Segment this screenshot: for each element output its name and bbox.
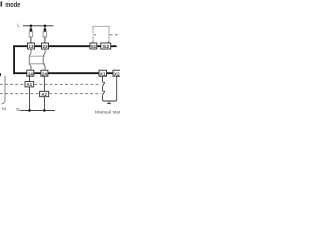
terminal box A2 (40, 91, 49, 97)
linkage dash through device box (93, 34, 96, 36)
contact K1 linkage col1 (13-14) (29, 49, 31, 70)
contact terminal nub 2 (103, 90, 105, 92)
svg-text:13: 13 (28, 44, 34, 49)
svg-text:M1: M1 (2, 107, 7, 111)
terminal box S2 (101, 43, 111, 49)
wire contact2 down and across (103, 78, 117, 101)
wire between contacts (102, 86, 104, 91)
contact K1 linkage col2 (23-24) (43, 49, 45, 70)
wire thick contact row2 (13, 72, 113, 74)
manual switch contact blade 1 (103, 82, 105, 86)
terminal box X2 (113, 70, 121, 76)
terminal box 14 (27, 70, 34, 76)
wire A2 to N (43, 97, 45, 111)
tick device to S2 (108, 41, 110, 43)
svg-text:A2: A2 (41, 92, 47, 97)
tick device to S1 (92, 41, 94, 43)
svg-text:X1: X1 (100, 71, 106, 76)
mechanical linkage dashed row upper (0, 83, 101, 85)
junction dot on L rail col2 (44, 25, 47, 28)
manual switch contact blade 2 (103, 91, 105, 95)
wire X2 down (116, 76, 118, 78)
svg-text:Manual start: Manual start (95, 110, 120, 115)
svg-text:S1: S1 (91, 44, 97, 49)
manual actuator stem (108, 101, 110, 103)
svg-text:X2: X2 (114, 71, 120, 76)
title (cropped) "d mode" (1, 1, 3, 6)
wire N rail (20, 109, 55, 111)
wire L rail (23, 25, 54, 27)
svg-text:A1: A1 (26, 82, 32, 87)
svg-text:N: N (16, 107, 19, 112)
terminal box 13 (28, 43, 35, 49)
svg-text:24: 24 (42, 71, 48, 76)
mechanical link bar upper (29, 55, 45, 57)
junction dot on L rail col1 (30, 25, 33, 28)
terminal box A1 (25, 82, 34, 87)
junction dot N col1 (28, 109, 31, 112)
mechanical link bar lower (29, 63, 45, 65)
fuse F1 (29, 26, 33, 43)
external device box (gray, top right) (93, 26, 109, 41)
terminal box 24 (41, 70, 48, 76)
wire thick contact row1 (13, 45, 117, 47)
wire 24 to A2 (43, 76, 45, 91)
terminal box 23 (42, 43, 49, 49)
svg-text:mode: mode (5, 1, 20, 9)
contact terminal nub 1 (103, 81, 105, 83)
terminal box X1 (99, 70, 107, 76)
mechanical linkage dashed row lower (0, 93, 101, 95)
svg-text:23: 23 (42, 44, 48, 49)
svg-text:S2: S2 (102, 44, 110, 49)
wire X1 down (102, 76, 104, 82)
linkage dashed line to right edge (110, 34, 120, 36)
svg-text:14: 14 (28, 71, 34, 76)
wire 14 to A1 (29, 76, 31, 81)
wire A1 to N (29, 87, 31, 111)
linkage vertical to M1 (2, 76, 5, 104)
terminal box S1 (90, 43, 97, 49)
wire thick left vertical (13, 45, 15, 74)
manual actuator bar (107, 103, 111, 105)
cropped element stub at left edge (0, 73, 1, 76)
fuse F2 (43, 26, 47, 43)
junction dot N col2 (43, 109, 46, 112)
